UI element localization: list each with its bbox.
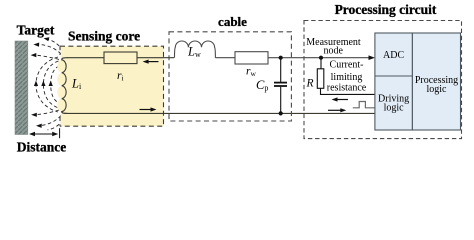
wire: r1 to cable [137, 57, 174, 59]
target plate [15, 41, 28, 135]
svg-text:Cp: Cp [256, 78, 268, 93]
node: Cp top junction [279, 56, 283, 60]
wire: coil top to resistor r1 [67, 57, 104, 59]
field line upper open 2 [37, 44, 62, 54]
field line loop 1 (inner) [51, 66, 59, 103]
field line loop 3 [36, 57, 58, 112]
resistor rw [235, 52, 268, 64]
field line lower open 2 [39, 116, 61, 126]
current arrow (bottom, pointing right) [140, 109, 155, 111]
distance reference tick [59, 128, 61, 138]
logic block: ADC/Driving divider [375, 75, 413, 77]
field line lower open 2 arrowhead [36, 124, 42, 128]
pulse waveform [353, 102, 375, 108]
svg-text:Current-: Current- [330, 60, 364, 71]
svg-text:logic: logic [384, 102, 405, 113]
signal arrow (pointing right) [328, 109, 344, 111]
field line upper open 3 [47, 39, 64, 51]
svg-text:Sensing core: Sensing core [68, 28, 140, 43]
svg-text:node: node [323, 46, 343, 57]
field line lower open 1 arrowhead [31, 113, 37, 117]
sensing core dashed border [60, 46, 164, 126]
logic block: ADC cell [375, 33, 413, 130]
processing circuit dashed box [304, 21, 462, 139]
svg-text:resistance: resistance [327, 82, 367, 93]
distance double arrow [31, 133, 57, 135]
svg-text:Lw: Lw [187, 45, 201, 60]
resistor R lead bottom [321, 88, 375, 94]
svg-text:logic: logic [427, 84, 448, 95]
svg-text:cable: cable [218, 14, 247, 29]
current arrow (top, pointing left) [145, 61, 159, 63]
wire: Lw to rw [215, 57, 235, 59]
sensing core box fill [61, 46, 164, 126]
field line arrowheads up (on loops) [34, 81, 53, 87]
wire: bottom (coil to driving logic) [62, 112, 375, 114]
svg-text:ADC: ADC [383, 50, 404, 61]
svg-text:Processing circuit: Processing circuit [335, 2, 437, 17]
measurement node junction [319, 56, 323, 60]
svg-text:limiting: limiting [331, 72, 363, 83]
arrow into ADC [369, 55, 376, 60]
signal arrow (pointing left) [334, 99, 348, 101]
field line loop 2 [43, 61, 58, 108]
wire: rw to measurement node [268, 57, 372, 59]
field line upper open 3 arrowhead [44, 37, 50, 41]
coil Li fill bumps [57, 60, 64, 112]
field line upper open 2 arrowhead [33, 43, 39, 47]
node: Cp bottom junction [279, 111, 283, 115]
coil Li (sensing coil) [62, 58, 68, 114]
svg-text:R: R [306, 77, 314, 89]
resistor R [317, 69, 324, 89]
field line upper open 1 arrowhead [31, 53, 37, 57]
sensing core dashed border left bits [59, 46, 61, 55]
resistor R lead top [320, 58, 322, 69]
field line upper open 1 [34, 55, 60, 59]
capacitor Cp [274, 58, 287, 114]
svg-text:Distance: Distance [17, 140, 67, 155]
cable dashed box [169, 32, 291, 121]
logic block: Processing logic cell [412, 33, 460, 130]
svg-text:rw: rw [246, 66, 256, 79]
field line lower open 3 [48, 120, 64, 130]
field line lower open 1 [34, 110, 59, 115]
resistor r1 [104, 52, 137, 64]
svg-text:Target: Target [17, 22, 55, 37]
inductor Lw [175, 41, 216, 58]
